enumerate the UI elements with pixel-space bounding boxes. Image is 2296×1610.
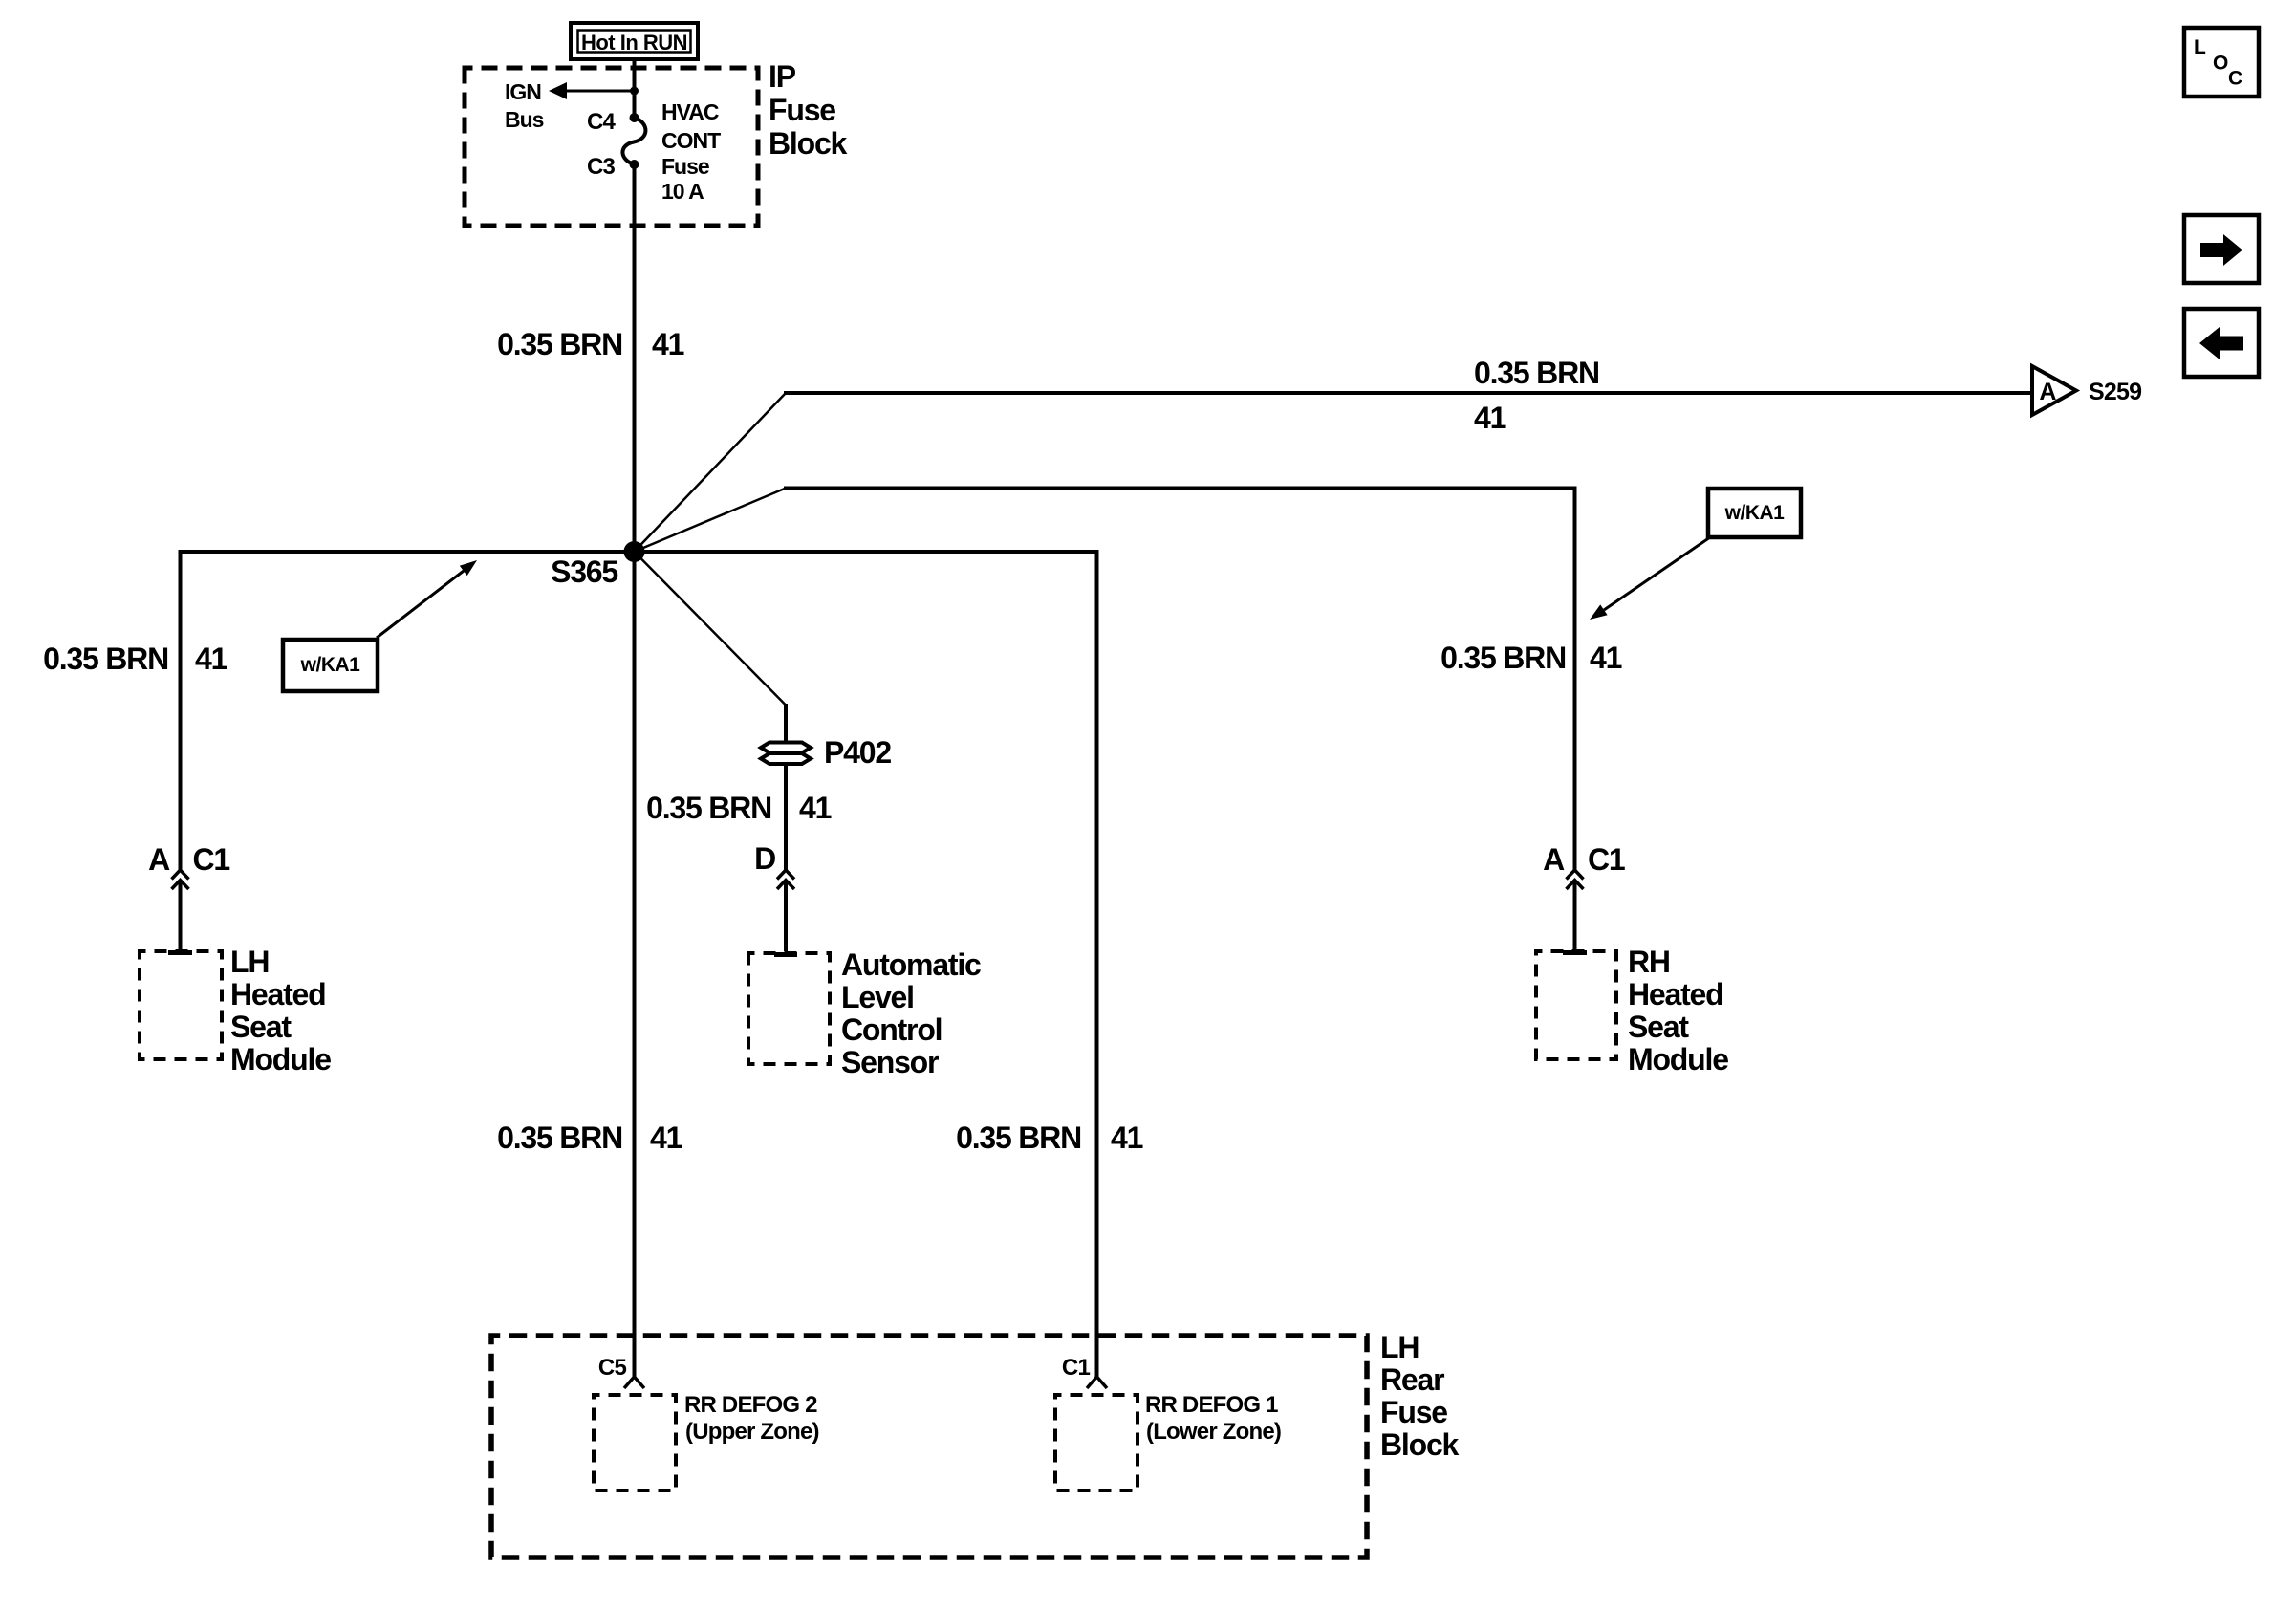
RR DEFOG 1 label xyxy=(1145,1392,1281,1445)
svg-text:C3: C3 xyxy=(587,154,616,180)
svg-text:0.35 BRN: 0.35 BRN xyxy=(497,327,622,361)
LH heated seat module box xyxy=(140,951,222,1059)
leader arrow from w/KA1 to left wire xyxy=(377,560,477,638)
RH heated seat module label xyxy=(1628,945,1728,1077)
wire: LH connector to module xyxy=(179,881,183,952)
pass-through grommet P402 xyxy=(761,743,811,765)
svg-text:41: 41 xyxy=(1474,401,1506,435)
svg-text:0.35 BRN: 0.35 BRN xyxy=(43,642,168,676)
automatic level control sensor box xyxy=(748,953,830,1064)
pin A / connector C1 labels (RH) xyxy=(1543,842,1625,877)
LH rear fuse block label xyxy=(1380,1330,1460,1462)
node: fuse terminal dot C4 xyxy=(630,113,639,122)
wire: branch to RH heated seat module xyxy=(635,489,1575,871)
wire label 0.35 BRN / 41 (S259 branch) xyxy=(1474,356,1599,435)
svg-text:Fuse: Fuse xyxy=(661,154,709,179)
fuse value label HVAC CONT Fuse 10 A xyxy=(661,99,721,204)
LOC legend icon xyxy=(2184,28,2259,97)
wire: branch to S259 xyxy=(635,393,2032,552)
svg-text:S365: S365 xyxy=(551,555,617,589)
off-page connector triangle A to S259 xyxy=(2032,366,2076,415)
svg-text:Heated: Heated xyxy=(1628,977,1723,1012)
svg-text:L: L xyxy=(2194,36,2206,58)
svg-text:S259: S259 xyxy=(2089,379,2141,405)
svg-text:A: A xyxy=(1543,842,1565,877)
svg-text:Level: Level xyxy=(841,980,914,1014)
svg-text:w/KA1: w/KA1 xyxy=(300,654,361,676)
svg-text:0.35 BRN: 0.35 BRN xyxy=(497,1120,622,1155)
svg-text:Rear: Rear xyxy=(1380,1362,1444,1397)
wire: branch left to LH heated seat module xyxy=(181,552,635,870)
svg-text:A: A xyxy=(148,842,170,877)
svg-text:P402: P402 xyxy=(824,735,891,770)
svg-text:Hot In RUN: Hot In RUN xyxy=(581,31,687,54)
wire: IGN Bus feed with arrow xyxy=(549,82,634,99)
svg-text:Fuse: Fuse xyxy=(1380,1395,1447,1429)
wire: P402 to connector D xyxy=(784,764,788,870)
svg-text:C1: C1 xyxy=(193,842,230,877)
svg-text:Block: Block xyxy=(769,126,848,161)
svg-text:Module: Module xyxy=(1628,1042,1728,1077)
node: junction dot at IGN tap xyxy=(630,87,639,96)
svg-text:RR DEFOG 2: RR DEFOG 2 xyxy=(684,1392,817,1418)
RH heated seat module box xyxy=(1536,951,1616,1059)
svg-text:41: 41 xyxy=(1111,1120,1143,1155)
terminal C5 chevron xyxy=(624,1377,644,1388)
wire label 0.35 BRN 41 (center lower) xyxy=(497,1120,682,1155)
svg-text:Seat: Seat xyxy=(1628,1010,1689,1044)
svg-text:41: 41 xyxy=(650,1120,682,1155)
wire: branch to P402 / ALC sensor xyxy=(635,552,787,742)
svg-text:0.35 BRN: 0.35 BRN xyxy=(956,1120,1081,1155)
splice S365 xyxy=(624,541,645,562)
svg-text:41: 41 xyxy=(799,791,832,825)
IP fuse block dashed box xyxy=(465,68,758,226)
svg-text:10 A: 10 A xyxy=(661,179,704,204)
svg-text:A: A xyxy=(2039,379,2056,405)
svg-text:Automatic: Automatic xyxy=(841,947,981,982)
svg-text:Sensor: Sensor xyxy=(841,1045,939,1079)
wire: branch to RR DEFOG 1 xyxy=(635,552,1097,1377)
wire: RH connector to module xyxy=(1573,881,1577,952)
svg-text:41: 41 xyxy=(652,327,684,361)
svg-text:LH: LH xyxy=(230,945,269,979)
svg-text:(Upper Zone): (Upper Zone) xyxy=(685,1419,819,1445)
svg-text:w/KA1: w/KA1 xyxy=(1724,502,1786,524)
svg-text:RR DEFOG 1: RR DEFOG 1 xyxy=(1145,1392,1278,1418)
svg-text:0.35 BRN: 0.35 BRN xyxy=(1440,641,1566,675)
svg-text:HVAC: HVAC xyxy=(661,99,719,124)
svg-text:IGN: IGN xyxy=(505,79,541,104)
wire: main vertical from Hot In RUN to fuse C4 xyxy=(633,59,637,118)
w/KA1 callout box (left) xyxy=(283,640,378,691)
wire label 0.35 BRN 41 (upper) xyxy=(497,327,684,361)
svg-text:Bus: Bus xyxy=(505,107,544,132)
power label box "Hot In RUN" xyxy=(571,23,698,59)
wire: connector D to sensor xyxy=(784,881,788,952)
svg-text:41: 41 xyxy=(1590,641,1622,675)
IGN Bus label xyxy=(505,79,544,132)
wire: main vertical from fuse C3 down through splice to C5 xyxy=(633,164,637,1377)
wire label 0.35 BRN 41 (ALC branch) xyxy=(646,791,832,825)
svg-text:41: 41 xyxy=(195,642,227,676)
automatic level control sensor label xyxy=(841,947,981,1079)
svg-text:C: C xyxy=(2228,68,2242,90)
LH heated seat module label xyxy=(230,945,331,1077)
RR DEFOG 2 box xyxy=(594,1395,676,1490)
leader arrow from w/KA1 to RH wire xyxy=(1590,537,1710,620)
svg-text:C1: C1 xyxy=(1062,1355,1091,1381)
svg-text:Fuse: Fuse xyxy=(769,93,835,127)
fuse HVAC CONT 10A S-curve element xyxy=(622,118,645,164)
RR DEFOG 2 label xyxy=(684,1392,819,1445)
svg-text:LH: LH xyxy=(1380,1330,1419,1364)
svg-text:Module: Module xyxy=(230,1042,331,1077)
svg-text:0.35 BRN: 0.35 BRN xyxy=(646,791,771,825)
svg-text:RH: RH xyxy=(1628,945,1670,979)
wire label 0.35 BRN 41 (LH branch) xyxy=(43,642,227,676)
svg-text:Block: Block xyxy=(1380,1427,1460,1462)
w/KA1 callout box (right) xyxy=(1708,489,1801,537)
previous-page arrow icon (left) xyxy=(2184,309,2259,377)
svg-text:Heated: Heated xyxy=(230,977,326,1012)
svg-text:D: D xyxy=(754,841,775,876)
svg-text:(Lower Zone): (Lower Zone) xyxy=(1146,1419,1281,1445)
svg-text:CONT: CONT xyxy=(661,128,721,153)
RR DEFOG 1 box xyxy=(1055,1395,1137,1490)
svg-text:Seat: Seat xyxy=(230,1010,292,1044)
wire label 0.35 BRN 41 (right lower) xyxy=(956,1120,1143,1155)
svg-text:Control: Control xyxy=(841,1012,942,1047)
LH rear fuse block dashed box xyxy=(491,1336,1367,1557)
svg-text:C1: C1 xyxy=(1588,842,1625,877)
svg-text:C5: C5 xyxy=(598,1355,627,1381)
connector D chevrons xyxy=(777,870,794,889)
svg-text:0.35 BRN: 0.35 BRN xyxy=(1474,356,1599,390)
pin A / connector C1 labels (LH) xyxy=(148,842,229,877)
terminal C1 chevron xyxy=(1087,1377,1107,1388)
IP fuse block label xyxy=(769,59,848,161)
connector C1 chevrons (RH) xyxy=(1567,870,1584,889)
node: fuse terminal dot C3 xyxy=(630,160,639,169)
connector C1 chevrons (LH) xyxy=(172,870,189,889)
next-page arrow icon (right) xyxy=(2184,215,2259,283)
svg-text:O: O xyxy=(2213,53,2228,75)
wire label 0.35 BRN 41 (RH branch) xyxy=(1440,641,1622,675)
svg-text:IP: IP xyxy=(769,59,796,94)
svg-text:C4: C4 xyxy=(587,109,617,135)
